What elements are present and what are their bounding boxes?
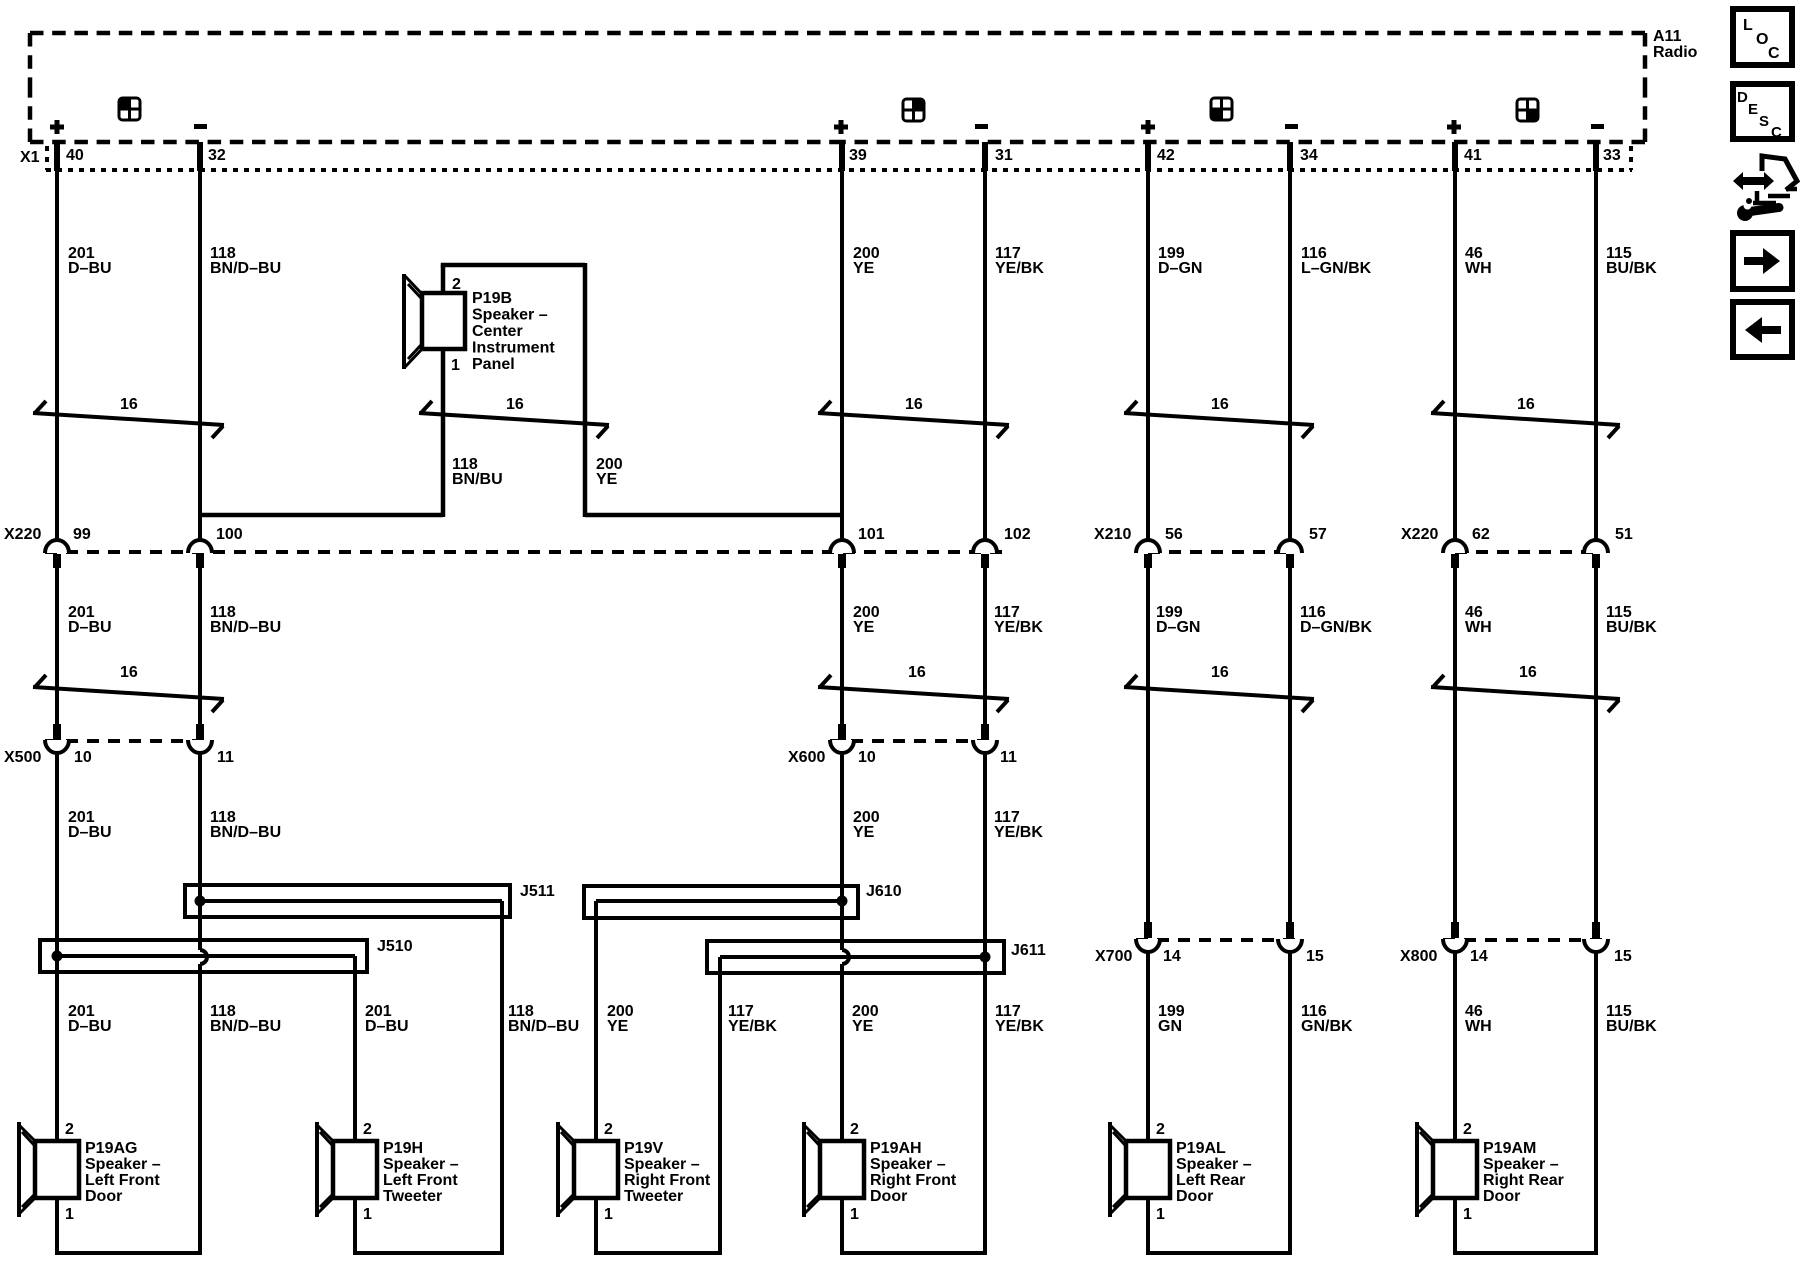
svg-text:X1: X1 <box>20 149 40 166</box>
svg-text:Speaker –: Speaker – <box>624 1156 700 1173</box>
svg-text:32: 32 <box>208 147 226 164</box>
svg-text:D–GN/BK: D–GN/BK <box>1300 619 1372 636</box>
svg-text:16: 16 <box>120 396 138 413</box>
svg-text:BN/BU: BN/BU <box>452 471 503 488</box>
svg-text:51: 51 <box>1615 526 1633 543</box>
svg-text:1: 1 <box>65 1206 74 1223</box>
svg-text:P19AH: P19AH <box>870 1140 922 1157</box>
svg-text:Door: Door <box>85 1188 122 1205</box>
svg-text:X500: X500 <box>4 749 41 766</box>
svg-text:14: 14 <box>1470 948 1488 965</box>
svg-text:Speaker –: Speaker – <box>472 307 548 324</box>
svg-text:L–GN/BK: L–GN/BK <box>1301 260 1372 277</box>
svg-text:YE: YE <box>853 824 875 841</box>
svg-text:GN/BK: GN/BK <box>1301 1018 1353 1035</box>
svg-text:41: 41 <box>1464 147 1482 164</box>
svg-text:X800: X800 <box>1400 948 1437 965</box>
svg-text:14: 14 <box>1163 948 1181 965</box>
svg-text:YE: YE <box>852 1018 874 1035</box>
svg-text:Radio: Radio <box>1653 44 1698 61</box>
svg-text:Right Rear: Right Rear <box>1483 1172 1564 1189</box>
svg-text:Right Front: Right Front <box>624 1172 711 1189</box>
svg-text:16: 16 <box>1517 396 1535 413</box>
svg-text:10: 10 <box>74 749 92 766</box>
svg-text:BU/BK: BU/BK <box>1606 1018 1657 1035</box>
svg-text:P19V: P19V <box>624 1140 663 1157</box>
svg-text:Speaker –: Speaker – <box>870 1156 946 1173</box>
svg-text:P19H: P19H <box>383 1140 423 1157</box>
svg-text:16: 16 <box>1211 396 1229 413</box>
svg-text:Right Front: Right Front <box>870 1172 957 1189</box>
svg-text:A11: A11 <box>1653 28 1682 45</box>
svg-text:YE/BK: YE/BK <box>728 1018 777 1035</box>
svg-text:56: 56 <box>1165 526 1183 543</box>
svg-text:57: 57 <box>1309 526 1327 543</box>
svg-text:WH: WH <box>1465 619 1492 636</box>
svg-text:Left Rear: Left Rear <box>1176 1172 1245 1189</box>
svg-text:WH: WH <box>1465 1018 1492 1035</box>
svg-text:15: 15 <box>1306 948 1324 965</box>
svg-text:BN/D–BU: BN/D–BU <box>508 1018 579 1035</box>
svg-text:1: 1 <box>363 1206 372 1223</box>
svg-text:Door: Door <box>870 1188 907 1205</box>
svg-text:D–BU: D–BU <box>365 1018 409 1035</box>
svg-text:YE: YE <box>607 1018 629 1035</box>
svg-text:34: 34 <box>1300 147 1318 164</box>
svg-text:X700: X700 <box>1095 948 1132 965</box>
svg-text:D–BU: D–BU <box>68 260 112 277</box>
svg-text:YE/BK: YE/BK <box>994 619 1043 636</box>
svg-text:S: S <box>1759 113 1769 130</box>
svg-text:11: 11 <box>217 749 234 766</box>
svg-text:Speaker –: Speaker – <box>1483 1156 1559 1173</box>
svg-text:16: 16 <box>1211 664 1229 681</box>
svg-text:X210: X210 <box>1094 526 1131 543</box>
svg-text:BN/D–BU: BN/D–BU <box>210 260 281 277</box>
svg-text:P19B: P19B <box>472 290 512 307</box>
svg-text:BU/BK: BU/BK <box>1606 619 1657 636</box>
svg-text:BN/D–BU: BN/D–BU <box>210 1018 281 1035</box>
svg-text:16: 16 <box>506 396 524 413</box>
svg-text:1: 1 <box>451 357 460 374</box>
svg-text:Door: Door <box>1483 1188 1520 1205</box>
svg-text:Panel: Panel <box>472 356 515 373</box>
svg-text:11: 11 <box>1000 749 1017 766</box>
svg-text:WH: WH <box>1465 260 1492 277</box>
svg-text:62: 62 <box>1472 526 1490 543</box>
svg-text:Speaker –: Speaker – <box>1176 1156 1252 1173</box>
svg-text:10: 10 <box>858 749 876 766</box>
svg-text:X220: X220 <box>4 526 41 543</box>
svg-text:16: 16 <box>1519 664 1537 681</box>
svg-text:1: 1 <box>1463 1206 1472 1223</box>
svg-text:31: 31 <box>995 147 1013 164</box>
svg-text:2: 2 <box>850 1121 859 1138</box>
svg-text:Left Front: Left Front <box>85 1172 160 1189</box>
svg-text:33: 33 <box>1603 147 1621 164</box>
svg-text:BN/D–BU: BN/D–BU <box>210 619 281 636</box>
svg-text:Speaker –: Speaker – <box>85 1156 161 1173</box>
svg-text:15: 15 <box>1614 948 1632 965</box>
svg-text:P19AM: P19AM <box>1483 1140 1536 1157</box>
svg-text:40: 40 <box>66 147 84 164</box>
svg-text:YE: YE <box>853 619 875 636</box>
svg-text:Left Front: Left Front <box>383 1172 458 1189</box>
svg-text:101: 101 <box>858 526 885 543</box>
svg-text:1: 1 <box>1156 1206 1165 1223</box>
svg-text:J510: J510 <box>377 938 413 955</box>
svg-text:1: 1 <box>850 1206 859 1223</box>
svg-text:Tweeter: Tweeter <box>383 1188 442 1205</box>
svg-text:Center: Center <box>472 323 523 340</box>
svg-text:P19AL: P19AL <box>1176 1140 1226 1157</box>
svg-text:BU/BK: BU/BK <box>1606 260 1657 277</box>
svg-text:1: 1 <box>604 1206 613 1223</box>
svg-text:YE/BK: YE/BK <box>995 260 1044 277</box>
svg-text:2: 2 <box>604 1121 613 1138</box>
svg-text:YE/BK: YE/BK <box>994 824 1043 841</box>
svg-text:BN/D–BU: BN/D–BU <box>210 824 281 841</box>
svg-text:D–BU: D–BU <box>68 1018 112 1035</box>
svg-text:J511: J511 <box>520 883 555 900</box>
svg-text:100: 100 <box>216 526 243 543</box>
svg-text:42: 42 <box>1157 147 1175 164</box>
svg-text:16: 16 <box>908 664 926 681</box>
svg-text:D: D <box>1737 89 1748 106</box>
svg-text:2: 2 <box>65 1121 74 1138</box>
svg-text:Speaker –: Speaker – <box>383 1156 459 1173</box>
svg-text:O: O <box>1756 31 1768 48</box>
svg-text:Instrument: Instrument <box>472 340 555 357</box>
svg-text:P19AG: P19AG <box>85 1140 137 1157</box>
svg-text:C: C <box>1771 124 1782 141</box>
svg-text:D–GN: D–GN <box>1156 619 1200 636</box>
svg-text:D–BU: D–BU <box>68 824 112 841</box>
svg-text:J611: J611 <box>1011 942 1046 959</box>
svg-text:GN: GN <box>1158 1018 1182 1035</box>
svg-text:16: 16 <box>905 396 923 413</box>
svg-text:Door: Door <box>1176 1188 1213 1205</box>
svg-text:2: 2 <box>1156 1121 1165 1138</box>
svg-text:J610: J610 <box>866 883 902 900</box>
svg-text:99: 99 <box>73 526 91 543</box>
svg-text:D–BU: D–BU <box>68 619 112 636</box>
svg-text:YE/BK: YE/BK <box>995 1018 1044 1035</box>
svg-text:2: 2 <box>452 276 461 293</box>
svg-text:YE: YE <box>853 260 875 277</box>
svg-text:D–GN: D–GN <box>1158 260 1202 277</box>
svg-text:E: E <box>1748 101 1758 118</box>
svg-text:2: 2 <box>1463 1121 1472 1138</box>
svg-text:X220: X220 <box>1401 526 1438 543</box>
svg-text:C: C <box>1768 45 1780 62</box>
svg-text:YE: YE <box>596 471 618 488</box>
svg-text:16: 16 <box>120 664 138 681</box>
svg-text:Tweeter: Tweeter <box>624 1188 683 1205</box>
svg-text:39: 39 <box>849 147 867 164</box>
svg-text:X600: X600 <box>788 749 825 766</box>
svg-text:2: 2 <box>363 1121 372 1138</box>
svg-text:102: 102 <box>1004 526 1031 543</box>
svg-text:L: L <box>1743 17 1753 34</box>
